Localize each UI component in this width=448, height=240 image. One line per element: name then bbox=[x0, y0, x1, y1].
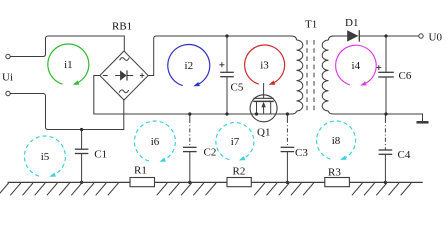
capacitor C5 bbox=[219, 36, 233, 114]
junction D1 output node bbox=[384, 34, 387, 37]
svg-text:i5: i5 bbox=[41, 151, 50, 163]
diode D1 bbox=[347, 30, 359, 41]
junction C2 ground bbox=[188, 181, 191, 184]
loop i7 bbox=[216, 123, 254, 161]
junction C6 bottom / C4 top bbox=[384, 112, 387, 115]
wire input bottom terminal to lower AC wire bbox=[10, 94, 124, 130]
svg-text:T1: T1 bbox=[305, 19, 317, 31]
junction Q1 source bbox=[255, 112, 258, 115]
transformer T1 primary winding bbox=[291, 36, 303, 114]
svg-text:i1: i1 bbox=[64, 59, 73, 71]
loop i8 bbox=[317, 121, 356, 160]
capacitor C3 bbox=[281, 114, 295, 182]
ground plane hatching bbox=[0, 183, 411, 195]
capacitor C2 bbox=[183, 114, 197, 182]
capacitor C4 bbox=[379, 114, 393, 182]
svg-text:R3: R3 bbox=[328, 167, 341, 179]
input terminal bottom bbox=[6, 91, 10, 95]
svg-text:RB1: RB1 bbox=[112, 21, 132, 33]
svg-text:i7: i7 bbox=[231, 136, 240, 148]
loop i3 bbox=[245, 45, 285, 85]
loop i2 bbox=[168, 44, 210, 86]
junction C5 top bbox=[225, 34, 228, 37]
wire bridge right vertex up to DC bus bbox=[148, 36, 291, 76]
capacitor C1 bbox=[75, 130, 89, 183]
svg-text:C4: C4 bbox=[398, 149, 411, 161]
transistor Q1 bbox=[250, 83, 277, 122]
wire secondary top to D1 and U0 bbox=[333, 35, 419, 37]
loop i4 bbox=[336, 45, 377, 85]
junction C4 ground bbox=[384, 181, 387, 184]
input terminal top bbox=[6, 54, 10, 58]
transformer T1 secondary winding bbox=[322, 36, 334, 114]
junction C2 top bbox=[188, 112, 191, 115]
svg-text:i3: i3 bbox=[260, 60, 269, 72]
svg-text:i4: i4 bbox=[352, 60, 361, 72]
resistor R1 bbox=[130, 178, 155, 187]
svg-text:D1: D1 bbox=[345, 17, 358, 29]
loop i6 bbox=[134, 121, 175, 162]
loop i5 bbox=[24, 136, 65, 177]
junction C3 ground bbox=[286, 181, 289, 184]
wire secondary bottom rail to chassis ground bbox=[333, 114, 423, 121]
svg-text:C5: C5 bbox=[231, 82, 244, 94]
svg-text:C1: C1 bbox=[94, 149, 107, 161]
resistor R2 bbox=[227, 178, 251, 187]
svg-text:i2: i2 bbox=[185, 60, 194, 72]
ground plane line bbox=[8, 181, 423, 183]
svg-text:C2: C2 bbox=[204, 147, 217, 159]
junction C5 bottom bbox=[225, 112, 228, 115]
resistor R3 bbox=[325, 178, 350, 187]
junction C3 top bbox=[286, 112, 289, 115]
svg-text:Q1: Q1 bbox=[257, 127, 270, 139]
svg-text:Ui: Ui bbox=[2, 72, 13, 84]
bridge rectifier RB1 bbox=[100, 51, 148, 100]
junction C1 top bbox=[80, 128, 83, 131]
loop i1 bbox=[48, 44, 89, 85]
wire input top terminal to top bus bbox=[10, 36, 124, 57]
capacitor C6 bbox=[376, 36, 394, 114]
wire bridge left vertex to negative rail bbox=[94, 76, 293, 115]
svg-text:U0: U0 bbox=[429, 32, 443, 44]
junction C1 ground bbox=[80, 181, 83, 184]
svg-text:R1: R1 bbox=[134, 165, 147, 177]
svg-text:i8: i8 bbox=[332, 135, 341, 147]
transformer T1 core bbox=[307, 40, 314, 112]
svg-text:C3: C3 bbox=[295, 147, 308, 159]
svg-text:i6: i6 bbox=[151, 136, 160, 148]
svg-text:R2: R2 bbox=[233, 166, 246, 178]
svg-text:C6: C6 bbox=[399, 70, 412, 82]
chassis ground symbol bbox=[417, 121, 429, 124]
output terminal U0 bbox=[419, 34, 423, 38]
